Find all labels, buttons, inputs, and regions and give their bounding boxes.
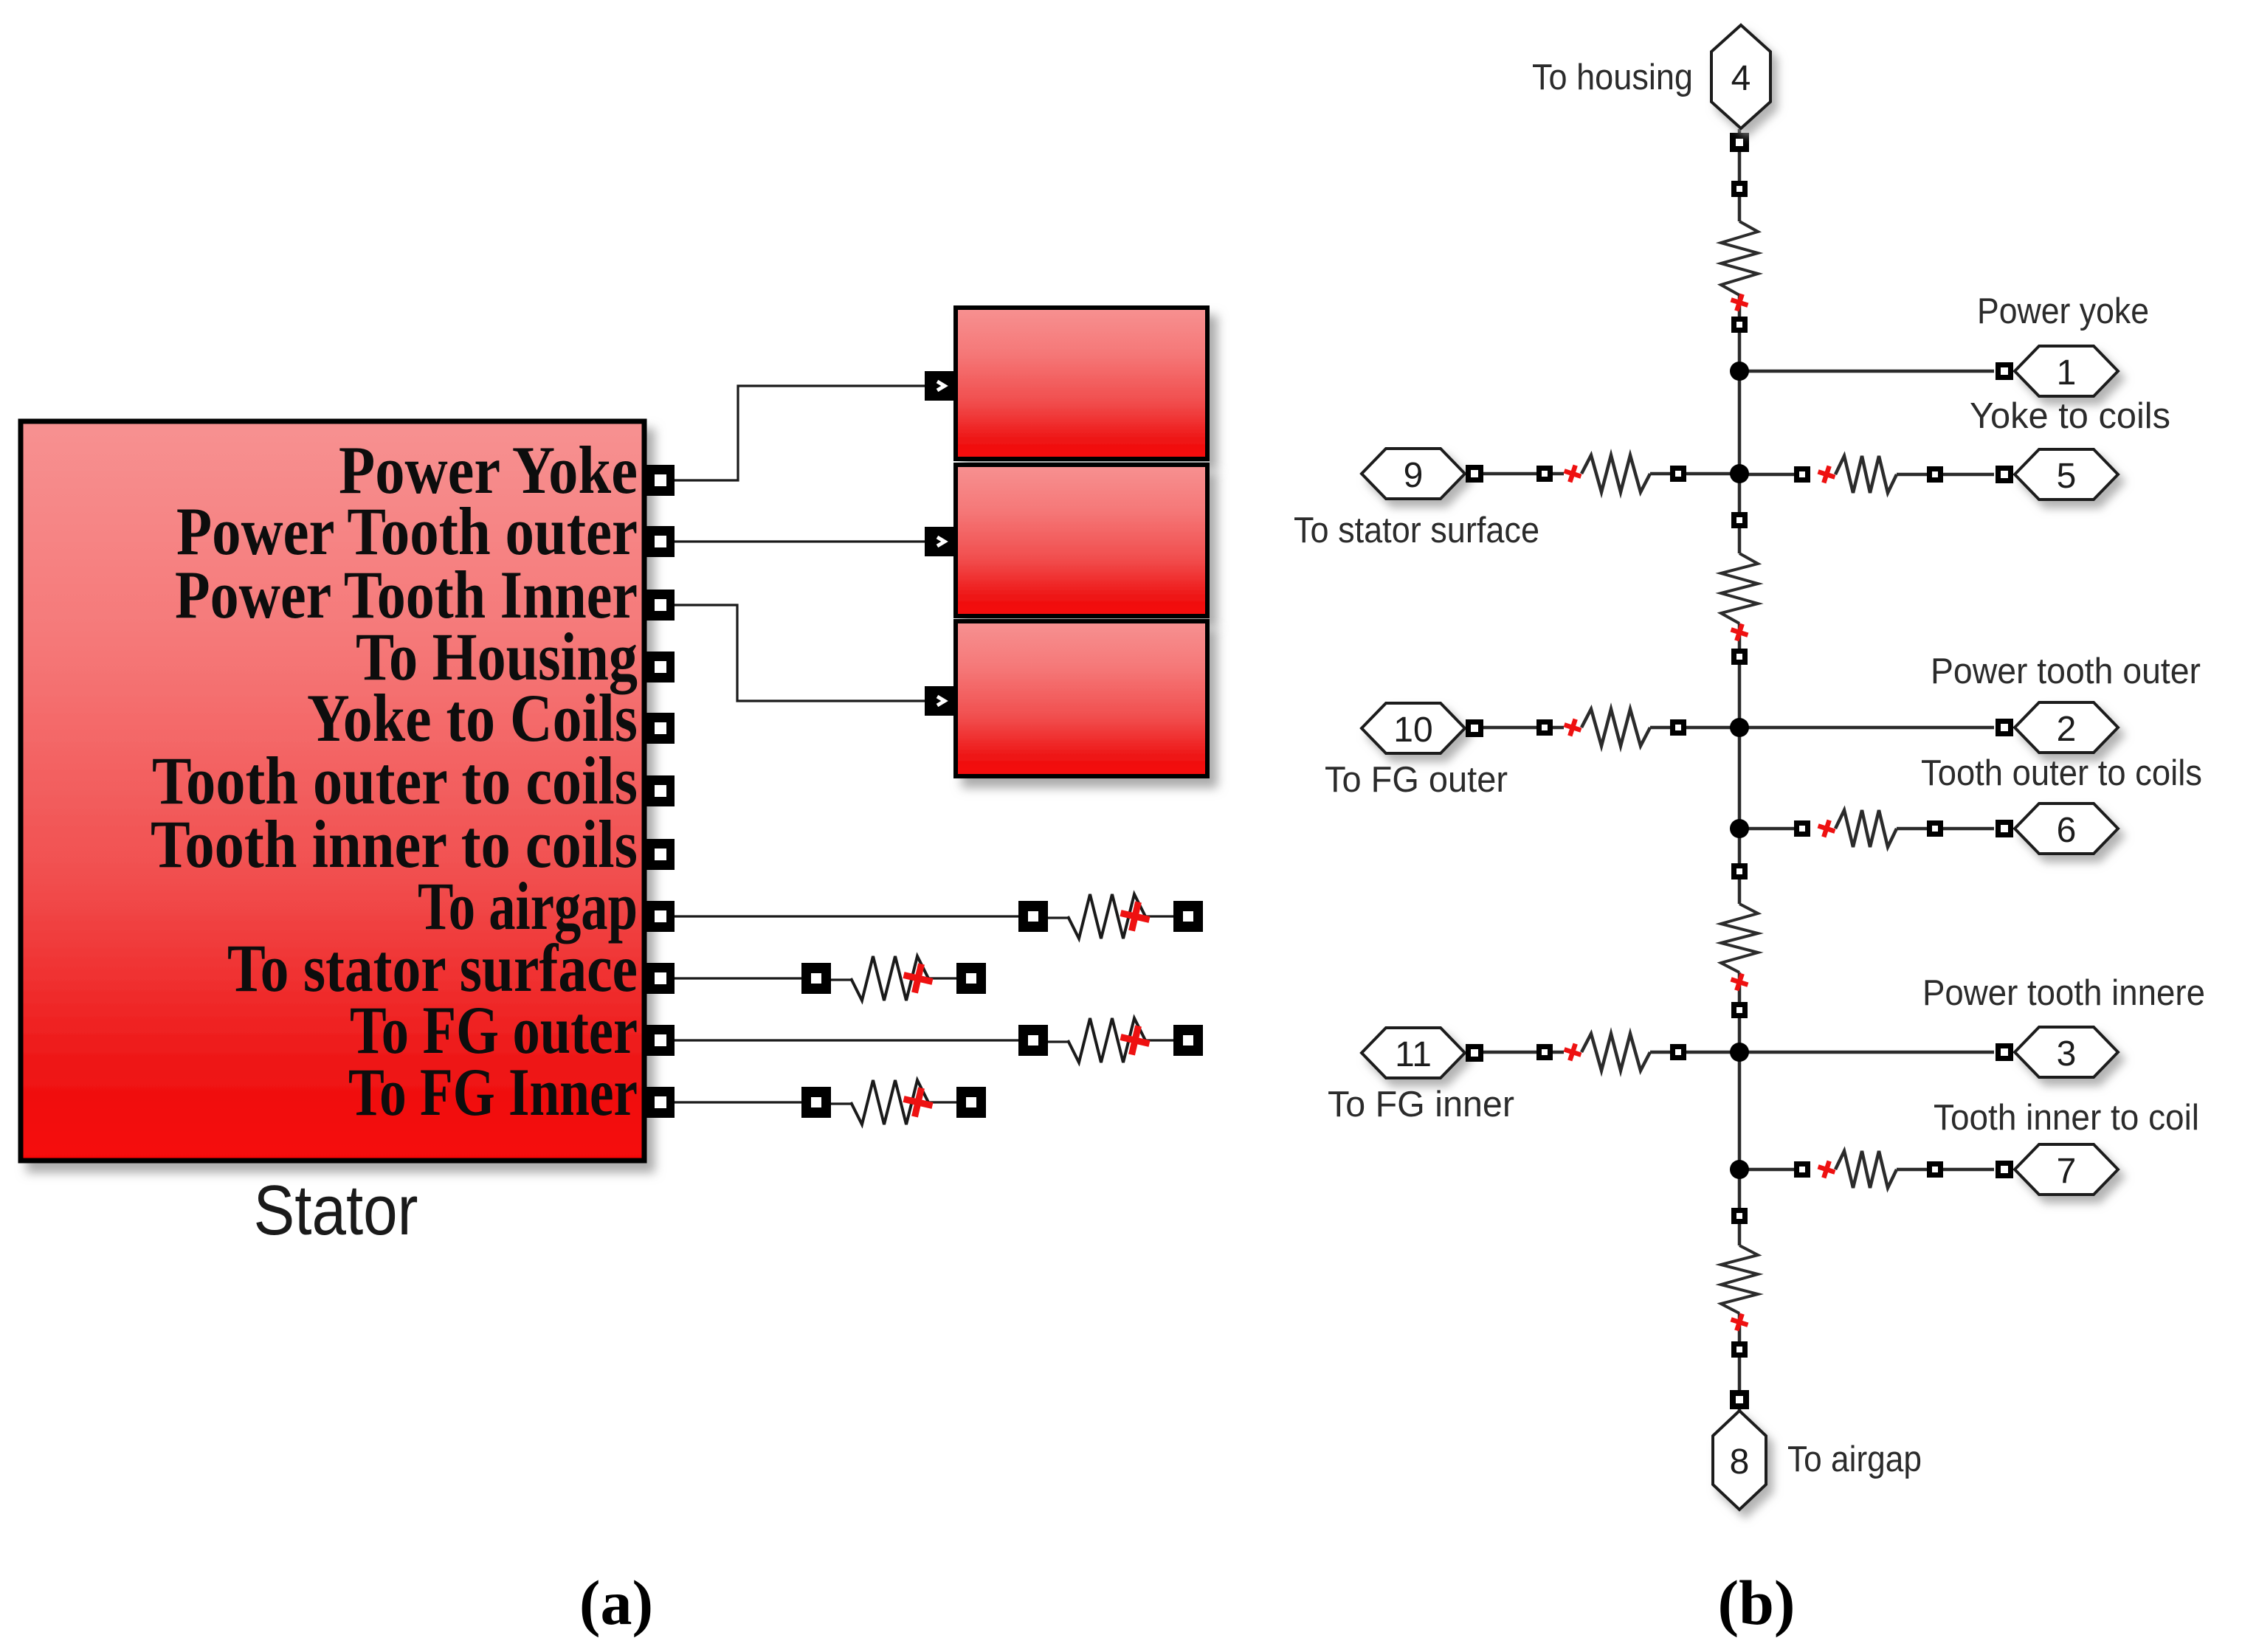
svg-text:To housing: To housing xyxy=(1532,58,1693,97)
port square of hexagon 9 xyxy=(1466,465,1483,483)
junction node xyxy=(1730,362,1749,381)
label To FG Inner xyxy=(348,1054,638,1130)
thermal resistor R stator surface xyxy=(801,956,986,1000)
label Power yoke xyxy=(1977,291,2149,331)
port 10 of Stator block xyxy=(646,1025,675,1056)
label Power Tooth outer xyxy=(176,494,638,569)
pad xyxy=(1731,181,1748,197)
label To airgap xyxy=(1787,1440,1922,1479)
svg-text:2: 2 xyxy=(2057,710,2077,749)
pad xyxy=(1731,1208,1748,1224)
label Power tooth innere xyxy=(1922,973,2205,1013)
pad xyxy=(1731,317,1748,333)
svg-text:6: 6 xyxy=(2057,811,2077,850)
pad xyxy=(1731,512,1748,528)
label Yoke to coils xyxy=(1970,396,2170,436)
wire Power Tooth Inner to sink C xyxy=(675,605,925,701)
block sink A xyxy=(956,308,1207,459)
wire to port 3 xyxy=(1739,1051,1994,1054)
label To stator surface xyxy=(227,930,638,1006)
wire Power Tooth outer to sink B xyxy=(675,540,925,542)
svg-text:Stator: Stator xyxy=(254,1171,418,1250)
port 6 of Stator block xyxy=(646,775,675,806)
block sink C xyxy=(956,621,1207,776)
block sink B xyxy=(956,465,1207,616)
junction node xyxy=(1730,1043,1749,1062)
port 4 of Stator block xyxy=(646,652,675,682)
label Tooth inner to coils xyxy=(151,806,638,882)
thermal resistor R FG inner xyxy=(801,1080,986,1124)
input port of sink block xyxy=(925,371,956,401)
port square of hexagon 2 xyxy=(1996,719,2013,736)
label Tooth inner to coil xyxy=(1934,1098,2199,1138)
hexagon port 11 xyxy=(1362,1028,1465,1078)
svg-text:Tooth inner to coil: Tooth inner to coil xyxy=(1934,1098,2199,1138)
wire To FG Inner xyxy=(675,1101,801,1103)
svg-text:Power tooth innere: Power tooth innere xyxy=(1922,973,2205,1013)
thermal resistance R tooth outer-inner (vertical) xyxy=(1721,904,1758,993)
wire to port 1 xyxy=(1739,370,1994,373)
port square of hexagon 5 xyxy=(1996,466,2013,483)
pad xyxy=(1731,649,1748,665)
label Tooth outer to coils xyxy=(152,743,638,818)
wire To airgap xyxy=(675,915,1019,917)
label Yoke to Coils xyxy=(307,680,638,756)
svg-text:To FG Inner: To FG Inner xyxy=(348,1054,638,1130)
port under hexagon 4 xyxy=(1730,133,1749,152)
thermal resistor R stator surface side xyxy=(1483,455,1739,492)
label To airgap xyxy=(418,868,638,944)
svg-text:Power tooth outer: Power tooth outer xyxy=(1931,652,2201,691)
label Power Tooth Inner xyxy=(175,557,638,632)
svg-text:To airgap: To airgap xyxy=(1787,1440,1922,1479)
svg-text:To stator surface: To stator surface xyxy=(1294,511,1539,550)
label To stator surface xyxy=(1294,511,1539,550)
svg-text:1: 1 xyxy=(2057,353,2077,393)
svg-text:7: 7 xyxy=(2057,1152,2077,1191)
label Power tooth outer xyxy=(1931,652,2201,691)
wire to port 2 xyxy=(1739,726,1994,730)
port 7 of Stator block xyxy=(646,839,675,870)
port square of hexagon 1 xyxy=(1996,362,2013,380)
port 2 of Stator block xyxy=(646,526,675,557)
port square of hexagon 10 xyxy=(1466,719,1483,737)
port square of hexagon 6 xyxy=(1996,820,2013,837)
hexagon port 10 xyxy=(1362,703,1465,753)
junction node xyxy=(1730,1160,1749,1179)
svg-text:5: 5 xyxy=(2057,457,2077,496)
hexagon port 9 xyxy=(1362,449,1465,499)
svg-text:3: 3 xyxy=(2057,1034,2077,1074)
pad xyxy=(1731,1341,1748,1358)
hexagon port 8 xyxy=(1713,1411,1766,1510)
svg-text:Yoke to coils: Yoke to coils xyxy=(1970,396,2170,436)
svg-text:11: 11 xyxy=(1395,1035,1432,1074)
thermal resistance R tooth inner-airgap (vertical) xyxy=(1721,1245,1758,1333)
label To Housing xyxy=(356,619,638,694)
port above hexagon 8 xyxy=(1730,1390,1749,1409)
thermal resistance R housing (vertical) xyxy=(1721,221,1758,314)
thermal resistor R FG outer xyxy=(1018,1018,1203,1062)
label To FG outer xyxy=(350,992,638,1068)
svg-text:To FG inner: To FG inner xyxy=(1328,1085,1514,1124)
port square of hexagon 11 xyxy=(1466,1044,1483,1062)
hexagon port 5 xyxy=(2015,449,2118,500)
port 9 of Stator block xyxy=(646,963,675,994)
backbone wire (b) xyxy=(1738,129,1742,221)
port 3 of Stator block xyxy=(646,590,675,621)
wire To FG outer xyxy=(675,1039,1019,1041)
junction node xyxy=(1730,819,1749,838)
svg-text:(b): (b) xyxy=(1717,1567,1795,1638)
hexagon port 2 xyxy=(2015,702,2118,753)
svg-text:4: 4 xyxy=(1731,59,1751,98)
thermal resistor R airgap xyxy=(1018,894,1203,939)
label To housing xyxy=(1532,58,1693,97)
port 8 of Stator block xyxy=(646,901,675,932)
input port of sink block xyxy=(925,527,956,556)
svg-text:Power yoke: Power yoke xyxy=(1977,291,2149,331)
label To FG inner xyxy=(1328,1085,1514,1124)
pad xyxy=(1731,863,1748,879)
thermal resistor R tooth outer to coils xyxy=(1739,810,1994,847)
pad xyxy=(1731,1002,1748,1018)
hexagon port 7 xyxy=(2015,1144,2118,1195)
port 11 of Stator block xyxy=(646,1087,675,1118)
wire To stator surface xyxy=(675,977,801,979)
wire Power Yoke to sink A xyxy=(675,386,925,480)
subsystem block Stator xyxy=(21,421,644,1161)
svg-text:To FG outer: To FG outer xyxy=(1325,760,1508,800)
port square of hexagon 3 xyxy=(1996,1043,2013,1061)
hexagon port 3 xyxy=(2015,1027,2118,1077)
hexagon port 4 xyxy=(1711,25,1770,128)
svg-text:10: 10 xyxy=(1393,711,1432,750)
label Tooth outer to coils xyxy=(1921,753,2202,793)
thermal resistance R yoke-tooth outer (vertical) xyxy=(1721,553,1758,643)
svg-text:8: 8 xyxy=(1730,1442,1750,1482)
junction node xyxy=(1730,718,1749,737)
port 1 of Stator block xyxy=(646,465,675,496)
port square of hexagon 7 xyxy=(1996,1161,2013,1178)
label Power Yoke xyxy=(339,432,638,508)
svg-text:(a): (a) xyxy=(579,1567,653,1638)
input port of sink block xyxy=(925,686,956,716)
thermal resistor R yoke to coils xyxy=(1739,456,1994,493)
hexagon port 6 xyxy=(2015,803,2118,854)
thermal resistor R FG inner side xyxy=(1483,1034,1739,1071)
svg-text:9: 9 xyxy=(1404,456,1424,495)
label To FG outer xyxy=(1325,760,1508,800)
thermal resistor R FG outer side xyxy=(1483,709,1739,746)
hexagon port 1 xyxy=(2015,346,2118,396)
thermal resistor R tooth inner to coil xyxy=(1739,1151,1994,1188)
junction node xyxy=(1730,464,1749,483)
port 5 of Stator block xyxy=(646,713,675,744)
svg-text:Tooth outer to coils: Tooth outer to coils xyxy=(1921,753,2202,793)
